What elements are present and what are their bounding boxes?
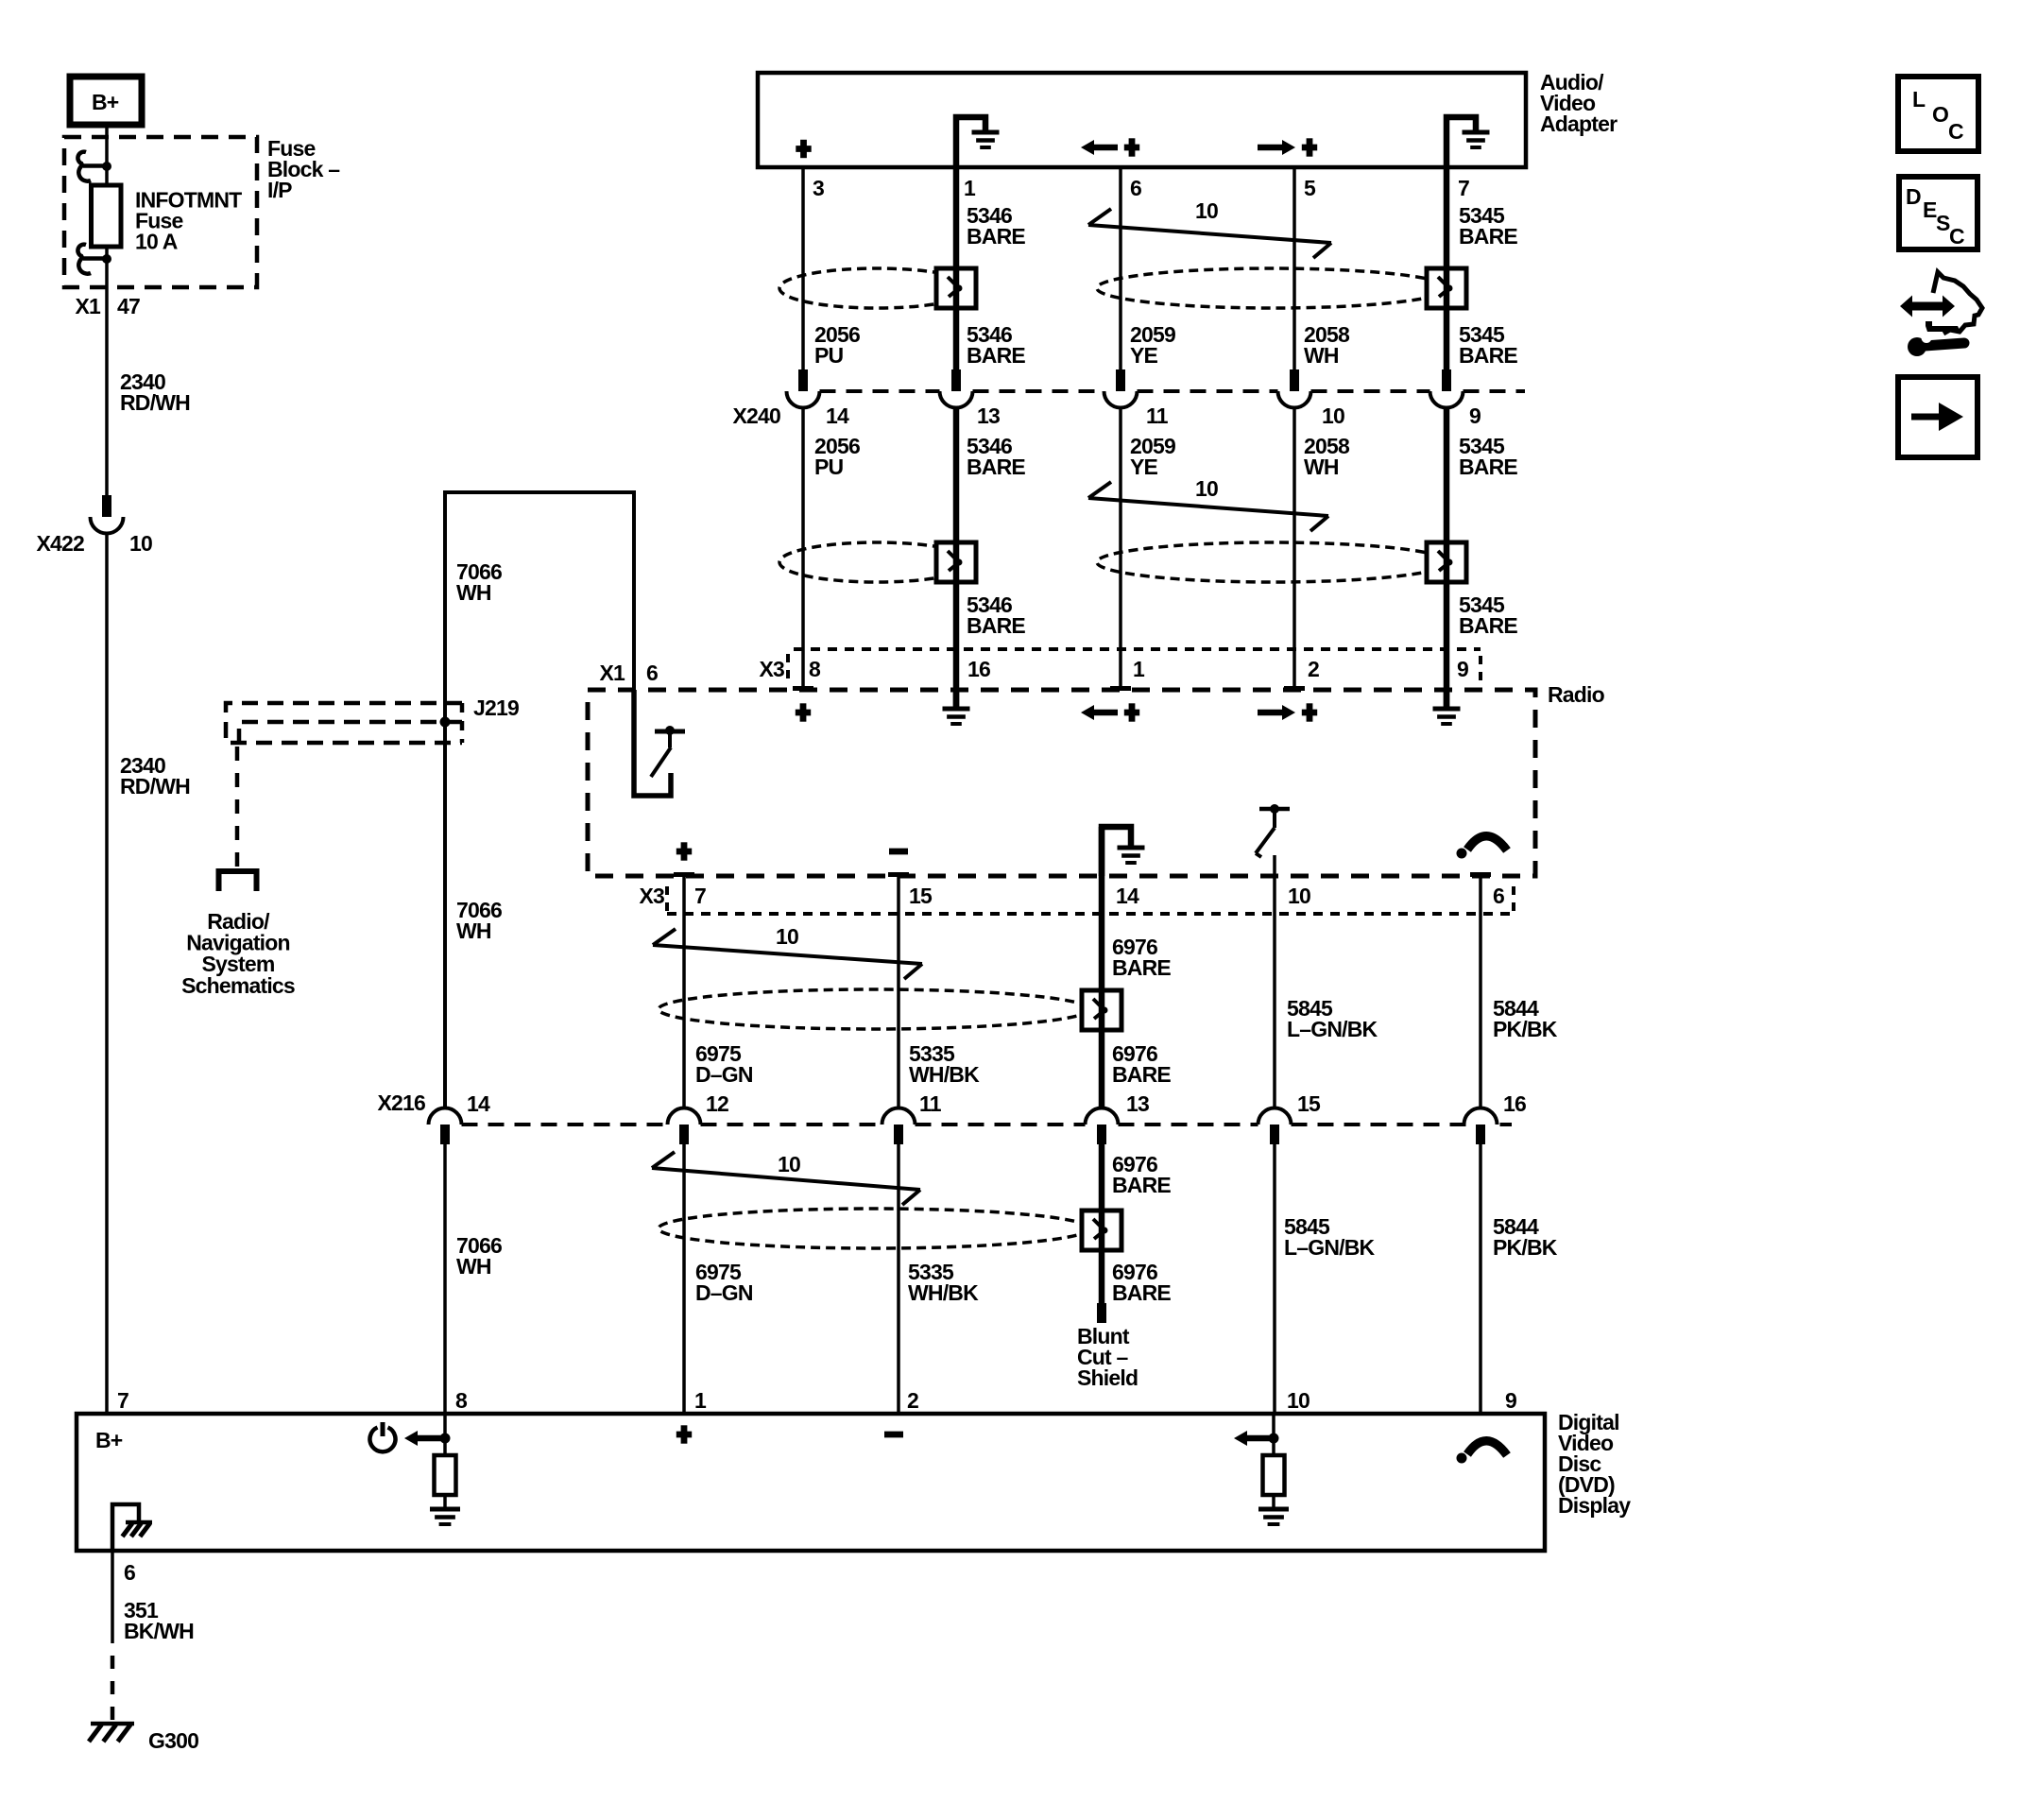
svg-text:14: 14 [1116,884,1139,908]
svg-text:D–GN: D–GN [695,1062,753,1087]
svg-text:WH: WH [456,919,491,943]
connector X216 terminal pin 16 [1464,1108,1498,1145]
svg-text:X216: X216 [377,1090,425,1115]
radio internal switch (power) [634,690,685,796]
junction dot (fuse bottom) [102,254,111,264]
shield ellipse (6975/5335 pair, upper) [659,989,1089,1029]
radio X3-14 ground elbow [1102,827,1145,876]
pin labels X3 top 8 16 1 2 9 [809,657,1468,681]
svg-text:1: 1 [1133,657,1145,681]
DVD pin 2 polarity - [884,1432,903,1438]
wire X3-7 stub [674,875,694,1108]
svg-text:RD/WH: RD/WH [120,774,190,798]
shield twist box on 5346 (upper) [936,268,976,308]
DVD pin 8 arrow to power [404,1431,451,1446]
svg-text:3: 3 [813,176,824,200]
svg-text:WH/BK: WH/BK [909,1062,980,1087]
wire 5345 BARE pin7 to X240 [1444,167,1450,369]
icon box LOC [1898,77,1978,151]
svg-text:WH/BK: WH/BK [908,1280,979,1305]
svg-text:BARE: BARE [967,455,1025,479]
svg-text:X3: X3 [639,884,664,908]
radio X3-1 arrow left + [1081,703,1139,721]
dashed reference drop from J219 [235,747,240,868]
svg-text:6: 6 [1493,884,1504,908]
label pin 6 (DVD) [124,1560,135,1585]
svg-text:PK/BK: PK/BK [1493,1017,1558,1041]
svg-text:2: 2 [1308,657,1319,681]
fuse clip terminal (bottom) [77,245,104,274]
junction dot J219 on 7066 WH [440,717,451,728]
svg-text:Shield: Shield [1077,1365,1138,1390]
fuse clip terminal (top) [77,152,104,181]
wire 2340 RD/WH (lower segment) [105,534,109,1415]
DVD pin 10 wire internal [1272,1414,1275,1455]
radio X3-16 ground [943,690,970,724]
svg-text:16: 16 [1503,1091,1526,1116]
label INFOTMNT Fuse 10 A [135,188,242,254]
shield ellipse (2056/5346 pair, upper) [779,268,974,308]
wire 5346 BARE X240 to radio X3-16 [953,408,960,710]
labels above X240: 2058 WH [1304,322,1350,368]
label 5335 WH/BK (lower) [908,1260,979,1305]
wire X3-15 stub [888,875,909,1108]
DVD pin 8 pull resistor [435,1455,456,1495]
in-line connector X422 pin 10 [91,495,124,534]
wire 6975 D-GN X216 to DVD-1 [682,1144,686,1414]
twisted-pair note arrow (mid) with 10 [1088,476,1328,531]
labels above X240: 2056 PU [814,322,860,368]
label X422 [36,531,84,556]
labels below X240: 2059 YE [1130,434,1175,479]
label 5345 BARE (above radio) [1459,592,1517,638]
fuse INFOTMNT 10A element [92,185,122,247]
svg-text:PU: PU [814,343,844,368]
component box Radio (dashed) [588,690,1535,876]
A/V pin 7 case ground symbol [1447,117,1490,167]
svg-text:10: 10 [1195,198,1218,223]
svg-text:10: 10 [1287,1388,1310,1413]
label X1 | 6 [599,661,658,685]
svg-text:C: C [1949,224,1964,249]
wire 6976 BARE through border [1099,827,1105,1107]
label circuit 351 BK/WH [124,1598,194,1643]
connector X240 terminal pin 11 [1104,369,1138,408]
label 5345 BARE (pin 7 upper) [1459,203,1517,249]
labels below X240: 5345 BARE [1459,434,1517,479]
svg-text:X3: X3 [759,657,784,681]
svg-text:YE: YE [1130,455,1158,479]
wire 2056 PU pin3 to X240 [801,167,805,369]
svg-text:BARE: BARE [1459,613,1517,638]
labels above X240: 2059 YE [1130,322,1175,368]
A/V pin 3 polarity symbol + [796,140,811,158]
pin labels X240 14 13 11 10 9 [826,403,1481,428]
wire fuse to X1 pin 47 [105,247,109,287]
label X240 [732,403,780,428]
svg-text:10: 10 [1288,884,1310,908]
junction dot (fuse top) [102,162,111,171]
label Digital Video Disc (DVD) Display [1558,1410,1631,1518]
icon pointer with wrench [1900,272,1982,356]
svg-text:BARE: BARE [1459,224,1517,249]
radio X3-7 polarity + [676,842,692,860]
svg-text:BARE: BARE [1112,955,1171,980]
wire 2056 PU X240 to radio X3-8 [793,408,813,689]
label 6975 D-GN [695,1041,753,1087]
label Audio/Video Adapter [1540,70,1618,136]
shield ellipse (2056/5346 pair, lower) [779,542,974,582]
wire B+ to fuse block [105,125,109,138]
svg-text:C: C [1948,119,1963,144]
svg-text:1: 1 [694,1388,707,1413]
svg-text:7: 7 [117,1388,128,1413]
label 7066 WH (mid) [456,898,502,943]
label 6976 BARE (upper) [1112,935,1171,980]
X3 top left dotted tick [786,654,790,682]
connector X216 terminal pin 14 [429,1108,462,1145]
svg-text:B+: B+ [95,1428,123,1452]
labels above X240: 5345 BARE [1459,322,1517,368]
svg-text:11: 11 [919,1091,942,1116]
label 5346 BARE (above radio) [967,592,1025,638]
svg-text:9: 9 [1457,657,1468,681]
shield twist box on 5346 (lower) [936,542,976,582]
label 6975 D-GN (lower) [695,1260,753,1305]
label 5844 PK/BK (lower) [1493,1214,1558,1260]
label 5844 PK/BK [1493,996,1558,1041]
junction block J219 dashed rails [226,703,462,743]
shield ellipse (2059/2058/5345, upper) [1097,268,1448,308]
shield twist box on 6976 (lower) [1082,1210,1121,1250]
X3 bottom left dotted tick [665,886,669,913]
connector X216 terminal pin 13 [1086,1108,1119,1145]
svg-text:7: 7 [694,884,706,908]
A/V pin 1 case ground symbol [956,117,1000,167]
label X3 (radio top) [759,657,784,681]
label pin 10 (X422) [129,531,152,556]
pin labels 3 1 6 5 7 (A/V) [813,176,1469,200]
svg-text:10: 10 [778,1152,800,1176]
connector X216 dashed line [462,1123,1513,1126]
A/V pin 5 signal arrow right + [1258,138,1317,156]
svg-text:1: 1 [964,176,976,200]
svg-text:WH: WH [1304,343,1339,368]
shield ellipse (6975/5335 pair, lower) [659,1209,1089,1248]
svg-text:15: 15 [909,884,933,908]
wire 2059 YE X240 to radio X3-1 [1110,408,1131,689]
svg-text:13: 13 [977,403,1000,428]
svg-text:5: 5 [1304,176,1316,200]
svg-text:L–GN/BK: L–GN/BK [1284,1235,1376,1260]
connector X216 terminal pin 12 [668,1108,701,1145]
svg-text:Display: Display [1558,1493,1631,1518]
wire 7066 WH X216 to DVD-8 [443,1144,447,1414]
svg-text:BARE: BARE [1112,1062,1171,1087]
svg-text:10: 10 [129,531,152,556]
svg-text:D: D [1906,184,1921,209]
fuse block - I/P dashed outline [64,137,257,287]
shield twist box on 5345 (upper) [1427,268,1466,308]
connector X240 terminal pin 13 [940,369,973,408]
wire 5844 PK/BK from border [1470,875,1491,1108]
labels below X240: 5346 BARE [967,434,1025,479]
label 5335 WH/BK [909,1041,980,1087]
radio X3-10 switch [1256,804,1290,876]
wire 2059 YE pin6 to X240 [1119,167,1122,369]
svg-text:S: S [1936,211,1950,235]
wire 7066 WH riser (X216-14 up/over to radio X1-6) [445,492,634,1107]
DVD handset symbol [1457,1441,1508,1464]
labels below X240: 2058 WH [1304,434,1350,479]
wire 5335 WH/BK X216 to DVD-2 [897,1144,900,1414]
svg-text:14: 14 [467,1091,490,1116]
label circuit 2340 RD/WH (upper) [120,369,190,415]
svg-text:BARE: BARE [1112,1173,1171,1197]
component box Digital Video Disc (DVD) Display [77,1414,1545,1551]
svg-text:10 A: 10 A [135,230,178,254]
svg-text:9: 9 [1505,1388,1516,1413]
svg-text:J219: J219 [473,695,519,720]
svg-text:X1: X1 [599,661,625,685]
shield ellipse (2059/2058/5345, lower) [1097,542,1448,582]
off-page reference bracket [219,871,257,891]
svg-text:L: L [1912,87,1926,112]
wire 5844 PK/BK X216 to DVD-9 [1479,1144,1482,1414]
svg-text:X1: X1 [75,294,101,318]
DVD power symbol [369,1422,395,1451]
DVD pin 1 polarity + [676,1425,692,1443]
connector label X1 | 47 [75,294,140,318]
X3 top right dotted tick [1479,656,1482,684]
connector X216 terminal pin 15 [1258,1108,1292,1145]
connector X3 (radio bottom) dotted line [667,912,1514,916]
DVD pin 8 wire internal [443,1414,447,1455]
label 5845 L-GN/BK (lower) [1284,1214,1376,1260]
A/V pin 6 signal arrow left + [1081,138,1139,156]
pin labels X3 bottom 7 15 14 10 6 [694,884,1504,908]
label X3 (radio bottom) [639,884,664,908]
svg-text:L–GN/BK: L–GN/BK [1287,1017,1378,1041]
twisted-pair note arrow (top) with 10 [1088,198,1331,258]
svg-text:PU: PU [814,455,844,479]
label Radio [1548,682,1605,707]
label 6976 BARE (below X216) [1112,1152,1171,1197]
svg-text:X422: X422 [36,531,84,556]
wire 2058 WH X240 to radio X3-2 [1284,408,1305,689]
svg-text:BARE: BARE [967,613,1025,638]
power feed symbol B+ (battery positive) [70,77,142,125]
svg-text:7: 7 [1458,176,1469,200]
svg-text:15: 15 [1297,1091,1321,1116]
radio X3-6 handset symbol [1457,836,1508,859]
svg-text:D–GN: D–GN [695,1280,753,1305]
wire 5346 BARE pin1 to X240 [953,167,960,369]
label pin 7 (DVD B+) [117,1388,128,1413]
svg-text:16: 16 [967,657,990,681]
pin labels X216 14 12 11 13 15 16 [467,1091,1526,1116]
ground G300 chassis symbol [89,1724,134,1742]
twisted-pair note arrow (bottom) with 10 [652,1152,920,1205]
svg-text:WH: WH [1304,455,1339,479]
pin labels DVD 8 1 2 10 9 [455,1388,1516,1413]
radio X3-2 arrow right + [1258,703,1317,721]
label J219 [473,695,519,720]
svg-text:8: 8 [455,1388,468,1413]
svg-text:X240: X240 [732,403,780,428]
icon box DESC [1899,177,1977,249]
label 7066 WH (upper) [456,559,502,605]
svg-text:2: 2 [907,1388,918,1413]
DVD pin 10 arrow [1234,1431,1279,1446]
svg-text:Schematics: Schematics [181,973,295,998]
label Fuse Block - I/P [267,136,340,202]
svg-text:14: 14 [826,403,849,428]
svg-text:10: 10 [776,924,798,949]
blunt cut shield stub [1097,1303,1106,1323]
svg-text:8: 8 [809,657,821,681]
svg-text:12: 12 [706,1091,728,1116]
svg-text:6: 6 [646,661,658,685]
icon box right arrow [1898,377,1977,457]
DVD pin 8 resistor ground [430,1495,460,1524]
wire 5845 L-GN/BK through border [1273,876,1276,1107]
label 6976 BARE (lower) [1112,1260,1171,1305]
label 5346 BARE (pin 1 upper) [967,203,1025,249]
svg-text:BK/WH: BK/WH [124,1619,194,1643]
wire into fuse [105,138,109,185]
label 6976 BARE (mid) [1112,1041,1171,1087]
label X216 [377,1090,425,1115]
radio X3-8 polarity + [796,703,811,721]
X3 bottom right dotted tick [1512,886,1515,913]
wire 6976 BARE X216 to blunt cut [1099,1144,1105,1303]
svg-text:BARE: BARE [967,343,1025,368]
svg-text:6: 6 [1130,176,1141,200]
svg-text:G300: G300 [148,1728,198,1753]
svg-text:Adapter: Adapter [1540,112,1618,136]
label circuit 2340 RD/WH (lower) [120,753,190,798]
DVD pin 10 resistor ground [1258,1495,1289,1524]
shield twist box on 6976 (upper) [1082,990,1121,1030]
svg-text:BARE: BARE [967,224,1025,249]
svg-text:BARE: BARE [1112,1280,1171,1305]
svg-text:B+: B+ [92,90,119,114]
connector X240 terminal pin 14 [787,369,820,408]
label 7066 WH (lower) [456,1233,502,1279]
svg-text:RD/WH: RD/WH [120,390,190,415]
connector X3 (radio top) dotted line [794,647,1481,651]
connector X240 dashed line [820,389,1526,393]
label Blunt Cut - Shield [1077,1324,1138,1390]
label G300 [148,1728,198,1753]
svg-text:47: 47 [117,294,140,318]
connector X216 terminal pin 11 [882,1108,916,1145]
svg-text:PK/BK: PK/BK [1493,1235,1558,1260]
shield twist box on 5345 (lower) [1427,542,1466,582]
svg-text:WH: WH [456,1254,491,1279]
svg-text:10: 10 [1195,476,1218,501]
twisted-pair note arrow (radio) with 10 [653,924,922,979]
svg-text:BARE: BARE [1459,343,1517,368]
radio X3-15 polarity - [889,849,908,855]
DVD pin 10 pull resistor [1263,1455,1285,1495]
svg-text:9: 9 [1469,403,1481,428]
svg-text:E: E [1923,197,1937,222]
svg-text:YE: YE [1130,343,1158,368]
svg-text:13: 13 [1126,1091,1149,1116]
DVD chassis ground elbow [112,1504,152,1551]
wire 2340 RD/WH (upper segment) [105,287,109,495]
svg-text:6: 6 [124,1560,135,1585]
svg-text:10: 10 [1322,403,1344,428]
svg-text:I/P: I/P [267,178,292,202]
radio X3-9 ground [1433,690,1461,724]
svg-text:11: 11 [1146,403,1169,428]
svg-text:Radio: Radio [1548,682,1605,707]
label Radio/Navigation System Schematics [181,909,295,998]
labels above X240: 5346 BARE [967,322,1025,368]
svg-text:BARE: BARE [1459,455,1517,479]
connector X240 terminal pin 10 [1278,369,1311,408]
svg-text:WH: WH [456,580,491,605]
svg-text:O: O [1932,102,1948,127]
label 5845 L-GN/BK [1287,996,1378,1041]
labels below X240: 2056 PU [814,434,860,479]
wire 2058 WH pin5 to X240 [1292,167,1296,369]
wire 351 BK/WH dashed segment [111,1656,115,1721]
component box Audio/Video Adapter [758,73,1526,167]
wire 5845 L-GN/BK X216 to DVD-10 [1273,1144,1276,1414]
wire 351 BK/WH solid segment [111,1551,114,1643]
connector X240 terminal pin 9 [1430,369,1464,408]
wire 5345 BARE X240 to radio X3-9 [1444,408,1450,710]
label B+ inside DVD [95,1428,123,1452]
